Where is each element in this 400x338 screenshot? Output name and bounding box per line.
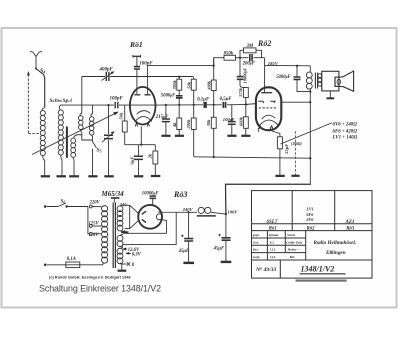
feedback coil L3 <box>71 135 82 160</box>
svg-text:Rö3: Rö3 <box>173 190 187 199</box>
shield ground T <box>111 198 120 203</box>
coupling capacitor 0,5µF <box>214 102 248 108</box>
wire top from 30k junction <box>214 58 224 66</box>
electrolytic 6µF cathode bypass <box>134 145 143 176</box>
table row Gez <box>253 240 303 244</box>
Rö2 grid pin stub <box>257 128 259 132</box>
underline <box>300 273 346 275</box>
svg-text:6V6 + 240Ω: 6V6 + 240Ω <box>333 123 358 128</box>
grid wire with junction <box>61 104 163 106</box>
speaker frame <box>322 71 339 91</box>
svg-text:S5: S5 <box>97 148 102 154</box>
Rö2 grid hooks <box>258 101 275 103</box>
svg-text:Ber.: Ber. <box>289 255 296 259</box>
cathode wire <box>125 144 156 146</box>
svg-text:(180Ω): (180Ω) <box>291 142 302 146</box>
svg-text:M65/34: M65/34 <box>101 190 125 198</box>
annotation tube options <box>332 123 358 141</box>
cathode resistor (tapped) <box>277 137 282 175</box>
svg-text:S4: S4 <box>40 69 45 75</box>
cathode resistor 2k <box>153 145 158 176</box>
svg-text:Rö2: Rö2 <box>257 39 271 48</box>
Rö3 anode bump <box>156 214 162 220</box>
filament loop lower <box>123 212 176 244</box>
Rö1 grid electrode <box>134 94 140 96</box>
junction rail <box>309 157 311 159</box>
resistor 30k upper <box>211 58 216 105</box>
junction <box>309 91 311 93</box>
junction <box>193 104 195 106</box>
tube Rö1 envelope <box>130 87 156 125</box>
svg-text:Eßlingen: Eßlingen <box>325 250 346 256</box>
ground <box>221 261 232 263</box>
svg-text:1348/1/V2: 1348/1/V2 <box>301 265 335 274</box>
speaker magnet <box>335 77 341 86</box>
ground <box>134 175 143 177</box>
svg-text:6SL7: 6SL7 <box>267 220 278 225</box>
switch S6 mains <box>47 203 88 208</box>
table row Gepr <box>253 255 296 259</box>
svg-text:850k: 850k <box>224 52 234 57</box>
Rö1 anode electrode <box>145 94 151 96</box>
svg-text:Name: Name <box>286 233 296 237</box>
tap 0 <box>122 262 130 265</box>
svg-text:2k: 2k <box>148 153 153 159</box>
junction grid wire / 215pF <box>165 104 167 106</box>
Rö1 heater arc <box>135 117 152 122</box>
Rö1 cathode arc <box>137 111 151 115</box>
ink smudge under box <box>296 280 347 282</box>
svg-text:5000pF: 5000pF <box>161 93 176 98</box>
svg-text:Rö1: Rö1 <box>129 40 143 49</box>
selector wire <box>88 207 89 234</box>
tube Rö2 envelope <box>256 87 281 130</box>
table header geprüft Datum Name <box>252 233 296 237</box>
svg-text:10000pF: 10000pF <box>142 192 160 197</box>
svg-text:gepr.: gepr. <box>252 233 260 237</box>
ground <box>291 175 299 177</box>
Rö3 output wire <box>158 211 197 213</box>
ground <box>151 175 161 177</box>
svg-text:Hofm.—: Hofm.— <box>287 248 301 252</box>
tap 110V <box>89 232 101 235</box>
fuse 0,1A <box>47 262 103 268</box>
capacitor 100pF to ground <box>228 105 236 135</box>
svg-text:300k: 300k <box>172 80 177 91</box>
antenna alt tap dashed wire with arrow <box>27 71 41 133</box>
svg-text:AZ1: AZ1 <box>345 220 355 225</box>
electrolytic 45µF #1 <box>184 212 193 262</box>
capacitor 10000pF <box>150 196 157 205</box>
svg-text:0,1A: 0,1A <box>67 257 76 262</box>
wave coil L4a <box>79 114 84 133</box>
filter choke <box>197 207 226 216</box>
svg-text:Rö3: Rö3 <box>346 226 355 231</box>
junction <box>107 104 109 106</box>
Rö2 bottom arc <box>259 120 277 126</box>
Rö2 cathode wire to resistor <box>270 128 280 137</box>
electrolytic 45µF #2 <box>222 214 231 261</box>
HV center tap ground <box>121 230 128 232</box>
wire feedback from rail down <box>81 77 83 114</box>
svg-text:400k: 400k <box>206 80 211 91</box>
Rö2 anode/screen line <box>281 101 310 103</box>
svg-text:Gepr.: Gepr. <box>253 255 261 259</box>
ground <box>183 262 194 264</box>
svg-text:45µF: 45µF <box>178 249 190 254</box>
svg-text:110V: 110V <box>89 233 100 238</box>
resistor 850k <box>224 55 240 60</box>
junction <box>245 103 247 105</box>
svg-text:100pF: 100pF <box>110 97 124 102</box>
svg-text:45µF: 45µF <box>213 247 225 252</box>
svg-text:30k: 30k <box>206 119 211 128</box>
rectifier filament winding <box>117 234 123 246</box>
ground <box>41 175 50 177</box>
svg-text:Radio Hellmuhösel.: Radio Hellmuhösel. <box>314 240 357 246</box>
junction <box>213 104 215 106</box>
svg-text:4k: 4k <box>172 122 177 128</box>
junction rail/300k <box>178 76 180 78</box>
capacitor 5000pF <box>176 96 183 105</box>
svg-text:Rö1: Rö1 <box>269 226 277 231</box>
speaker ground <box>327 91 335 98</box>
wire L3 to ground <box>73 160 75 176</box>
ground <box>69 175 79 177</box>
OT core <box>315 73 317 89</box>
polarity + <box>181 235 184 238</box>
ground <box>161 135 170 137</box>
Rö2 anode electrode <box>261 92 272 94</box>
svg-text:240V: 240V <box>182 207 194 212</box>
svg-text:10000pF: 10000pF <box>243 68 248 84</box>
ground <box>104 175 114 177</box>
OT secondary <box>318 74 322 87</box>
transformer core <box>113 203 115 269</box>
annotation leader <box>281 123 333 144</box>
polarity + <box>218 234 221 237</box>
tube list LV1 6F6 6V6 <box>306 207 315 222</box>
svg-text:180V: 180V <box>227 210 238 215</box>
svg-text:No 49/33: No 49/33 <box>255 266 276 273</box>
wire L1 to ground <box>44 160 46 176</box>
trimmer capacitor 400pF <box>102 71 115 81</box>
HV secondary <box>117 205 123 231</box>
svg-text:6µF: 6µF <box>129 156 134 164</box>
heater wire <box>294 131 296 175</box>
resistor 4k <box>177 105 182 135</box>
svg-text:200pF: 200pF <box>242 62 256 67</box>
resistor 50k (screen) <box>191 77 196 105</box>
junction <box>239 57 241 59</box>
svg-text:Größe Teile: Größe Teile <box>286 240 303 244</box>
svg-text:400pF: 400pF <box>99 68 114 73</box>
Rö1 cathode lead <box>140 127 142 145</box>
grid capacitor 100pF <box>134 67 140 69</box>
coupling arrow across coils <box>32 112 119 155</box>
svg-text:Rö2: Rö2 <box>307 226 316 231</box>
resistor 200k <box>191 105 196 157</box>
tap arrow 12,6V <box>122 248 127 251</box>
ground <box>175 135 184 137</box>
Rö2 cathode arc <box>262 115 276 119</box>
speaker cone <box>341 71 354 91</box>
junction anode wire <box>213 65 215 67</box>
junction <box>178 104 180 106</box>
capacitor 215pF <box>162 105 170 135</box>
svg-text:25µF: 25µF <box>284 144 289 155</box>
junction <box>309 101 311 103</box>
svg-text:12.I.: 12.I. <box>270 248 277 252</box>
resistor 30k lower <box>211 105 216 157</box>
capacitor 10000pF coupling <box>237 58 246 88</box>
ground <box>57 175 67 177</box>
tap 220V <box>89 205 101 208</box>
filament return funnel <box>125 205 139 228</box>
anode rail 185V <box>265 64 311 66</box>
ground <box>227 135 236 137</box>
svg-text:8.I.: 8.I. <box>270 240 275 244</box>
Rö2 top cap wire <box>264 58 266 93</box>
svg-text:240: 240 <box>119 202 127 207</box>
svg-text:Schaltung Einkreiser 1348/1/V2: Schaltung Einkreiser 1348/1/V2 <box>39 284 161 294</box>
wave coil L4b <box>89 105 94 136</box>
svg-text:Schw.Sp.1: Schw.Sp.1 <box>50 98 73 104</box>
svg-text:575k: 575k <box>238 87 243 97</box>
svg-text:0,1µF: 0,1µF <box>197 98 210 103</box>
series capacitor 100pF in grid wire <box>115 102 118 109</box>
svg-text:5000pF: 5000pF <box>276 75 291 80</box>
svg-text:6V6: 6V6 <box>307 217 315 222</box>
table row Bes <box>252 248 301 252</box>
filament loop upper <box>123 219 167 233</box>
Rö2 grid dashes <box>259 107 277 109</box>
svg-text:14.I.: 14.I. <box>270 255 277 259</box>
B+ return to choke node <box>226 184 311 214</box>
svg-text:Gez.: Gez. <box>253 240 259 244</box>
B+ distribution rail <box>194 157 311 158</box>
junction rail <box>213 156 215 158</box>
tap arrow 6,3V <box>125 252 131 255</box>
junction <box>140 144 142 146</box>
rail wire to trimmer and resistors <box>82 76 194 78</box>
resistor 600k <box>243 104 248 135</box>
svg-text:Bes.: Bes. <box>252 248 259 252</box>
svg-text:200k: 200k <box>186 119 191 130</box>
switch S5 <box>93 136 97 176</box>
ground <box>275 175 284 177</box>
heater winding 6,3V <box>117 248 123 264</box>
tuning coil L2 Schw.Sp.1 <box>58 105 63 159</box>
output transformer primary <box>306 66 312 92</box>
svg-text:220V: 220V <box>89 200 101 205</box>
tuning capacitor variable <box>102 105 115 175</box>
tone capacitor 5000pF across primary <box>294 66 311 92</box>
HV feed wire <box>122 205 139 213</box>
transformer primary <box>102 206 108 264</box>
Rö1 bottom leads <box>135 123 149 127</box>
Rö3 filament bars <box>142 211 146 222</box>
tube Rö3 envelope <box>138 205 162 229</box>
tap 125V <box>89 225 101 228</box>
svg-text:6,3V: 6,3V <box>132 252 142 257</box>
svg-text:185V: 185V <box>268 61 279 66</box>
iron core bars <box>66 127 68 158</box>
svg-text:Datum: Datum <box>268 233 279 237</box>
antenna <box>30 52 42 69</box>
svg-text:6F6 + 420Ω: 6F6 + 420Ω <box>333 129 358 134</box>
mains terminal lower <box>44 264 47 267</box>
capacitor 200pF <box>240 54 265 61</box>
resistor 575k <box>243 88 248 105</box>
svg-text:125V: 125V <box>89 222 100 227</box>
resistor 3M bridge <box>240 48 262 58</box>
switch S4 <box>35 68 45 108</box>
B+ vertical from OT <box>309 92 311 184</box>
mains terminal upper <box>44 205 47 208</box>
title block frame <box>252 191 373 279</box>
junction <box>225 213 227 215</box>
svg-text:215pF: 215pF <box>155 114 170 120</box>
svg-text:0,5µF: 0,5µF <box>220 97 233 102</box>
grid wire segment right <box>162 104 198 106</box>
transformer ground <box>118 264 127 271</box>
wire L4a join <box>82 133 93 141</box>
antenna coil L1 <box>40 108 45 161</box>
svg-text:(c) Runde GmbH, Esslingen b St: (c) Runde GmbH, Esslingen b Stuttgart 19… <box>49 276 131 280</box>
coupling capacitor 0,1µF <box>198 102 213 108</box>
wire L2 to ground <box>61 160 63 176</box>
wire grid cap to tube <box>136 69 138 94</box>
svg-text:100pF: 100pF <box>223 117 235 122</box>
grid top-cap terminal T-bar <box>133 55 141 66</box>
Rö1 anode wire up and right <box>148 66 214 95</box>
svg-text:LV1 + 140Ω: LV1 + 140Ω <box>332 136 358 141</box>
grid leak resistor 50k <box>122 105 127 145</box>
resistor 300k <box>177 77 182 96</box>
svg-text:50k: 50k <box>119 112 124 120</box>
junction <box>296 65 298 67</box>
ground <box>241 135 250 137</box>
svg-text:50k: 50k <box>186 81 191 89</box>
Rö2 bottom leads <box>259 125 273 129</box>
junction <box>188 211 190 213</box>
svg-text:600k: 600k <box>238 116 243 126</box>
svg-text:3M: 3M <box>246 44 254 49</box>
grid stub to Rö2 <box>246 103 256 106</box>
ground <box>88 175 97 177</box>
